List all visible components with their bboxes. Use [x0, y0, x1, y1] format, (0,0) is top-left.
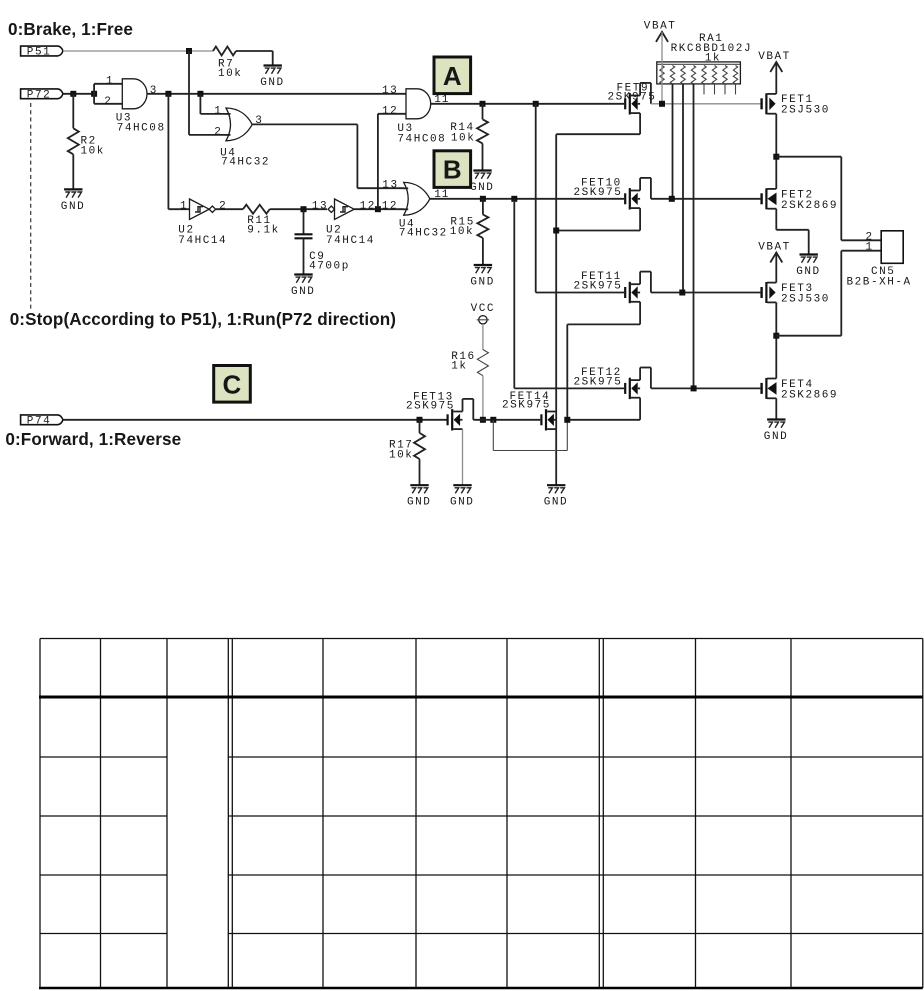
svg-text:13: 13 [382, 180, 398, 192]
svg-text:10k: 10k [450, 226, 474, 238]
node R14 junction [480, 101, 486, 107]
svg-text:2SJ530: 2SJ530 [781, 104, 830, 116]
svg-text:10k: 10k [218, 68, 242, 80]
wire R11 to inv2 [301, 208, 328, 210]
table grid [40, 639, 923, 989]
wire FET12 drain row [651, 387, 761, 389]
node RA1 pin1 node [659, 101, 665, 107]
wire CN5 pin2 net [776, 157, 881, 241]
wire FET2 source to GND [776, 209, 808, 255]
resistor R2 [68, 94, 105, 190]
svg-text:13: 13 [382, 85, 398, 97]
wire FET9 source path [556, 113, 640, 485]
wire P51 net [63, 50, 213, 52]
svg-text:13: 13 [312, 201, 328, 213]
wire FET10 drain row [651, 198, 761, 200]
node RA1 pin4 node [691, 385, 697, 391]
connector tag P74 [21, 415, 63, 428]
node C9 junction [301, 206, 307, 212]
wire gate-drain loop [493, 420, 567, 451]
svg-text:B: B [443, 155, 462, 185]
svg-text:1: 1 [214, 105, 222, 117]
wire net A to FET11 gate [536, 104, 624, 293]
svg-text:10k: 10k [81, 146, 105, 158]
svg-text:P72: P72 [27, 89, 51, 101]
resistor R14 [450, 104, 488, 171]
svg-text:P74: P74 [27, 415, 51, 427]
svg-text:GND: GND [61, 201, 85, 213]
svg-text:2SK975: 2SK975 [574, 281, 623, 293]
node R2 junction [70, 91, 76, 97]
svg-text:2SK2869: 2SK2869 [781, 390, 838, 402]
svg-text:1: 1 [106, 75, 114, 87]
label box C [214, 366, 251, 403]
svg-text:2SK975: 2SK975 [406, 401, 455, 413]
power VBAT FET3 [758, 241, 791, 262]
AND gate U3b 74HC08 [382, 85, 450, 145]
svg-text:VBAT: VBAT [644, 21, 677, 33]
connector tag P72 [21, 89, 63, 102]
wire FET13 source [462, 429, 464, 485]
power VBAT RA1 [644, 21, 677, 42]
svg-text:GND: GND [764, 431, 788, 443]
wire P72 net [63, 93, 94, 95]
wire FET9 drain row [651, 103, 761, 105]
wire P74 net [63, 419, 447, 421]
wire U3a output net [147, 93, 406, 95]
svg-text:1k: 1k [705, 53, 721, 65]
svg-text:2: 2 [219, 201, 227, 213]
svg-text:9.1k: 9.1k [247, 224, 280, 236]
svg-text:GND: GND [470, 277, 494, 289]
wire net B row [430, 198, 624, 200]
wire RA1 pin4 [693, 84, 695, 389]
label box B [434, 151, 471, 188]
capacitor C9 [295, 209, 350, 274]
wire FET4 source to GND [775, 398, 777, 419]
node R15 junction [480, 196, 486, 202]
ground GND R17 [407, 485, 431, 509]
wire to inverter U2a [168, 94, 189, 209]
wire VBAT to RA1 pin1 [661, 32, 663, 104]
svg-text:74HC32: 74HC32 [221, 156, 270, 168]
wire net A row [431, 103, 624, 105]
wire FET1-FET2 rail [775, 114, 777, 189]
wire FET3-FET4 rail [775, 302, 777, 378]
node RA1 pin3 node [679, 290, 685, 296]
wire R7 to GND [236, 51, 273, 66]
node motor node 2 [773, 154, 779, 160]
svg-text:2SK2869: 2SK2869 [781, 200, 838, 212]
wire VBAT to FET3 [775, 253, 777, 283]
wire to U3b pin12 [378, 114, 406, 209]
svg-text:2: 2 [214, 127, 222, 139]
svg-text:1: 1 [866, 242, 874, 254]
transistor FET10 2SK975 [574, 177, 651, 209]
svg-text:12: 12 [382, 105, 398, 117]
node P51 junction [186, 48, 192, 54]
ground GND C9 [291, 275, 315, 299]
svg-text:VBAT: VBAT [758, 241, 791, 253]
svg-text:GND: GND [260, 77, 284, 89]
dashed note leader [30, 103, 32, 310]
svg-text:2SJ530: 2SJ530 [781, 294, 830, 306]
resistor R17 [389, 420, 425, 485]
wire FET10 source path [556, 208, 640, 230]
svg-text:GND: GND [796, 266, 820, 278]
wire inv2 output [354, 208, 404, 210]
OR gate U4b 74HC32 [360, 180, 450, 240]
transistor FET1 2SJ530 [760, 93, 830, 116]
node source rail junction [553, 228, 559, 234]
transistor FET11 2SK975 [574, 271, 651, 303]
node FET12 gate junction [511, 196, 517, 202]
svg-text:4700p: 4700p [309, 260, 350, 272]
svg-text:0:Forward, 1:Reverse: 0:Forward, 1:Reverse [5, 430, 181, 449]
ground GND R2 [61, 189, 85, 213]
svg-text:0:Brake, 1:Free: 0:Brake, 1:Free [8, 20, 133, 39]
node RA1 pin2 node [669, 196, 675, 202]
node U3a input junction [91, 91, 97, 97]
power VCC [471, 303, 495, 324]
inverter U2a 74HC14 [178, 199, 227, 247]
svg-text:GND: GND [544, 497, 568, 509]
ground GND FET4 [764, 420, 788, 444]
svg-text:1k: 1k [451, 361, 467, 373]
wire RA1 pin3 [682, 84, 684, 293]
node R16 junction [480, 417, 486, 423]
svg-text:74HC08: 74HC08 [397, 133, 446, 145]
transistor FET13 2SK975 [406, 392, 473, 431]
svg-text:VBAT: VBAT [758, 51, 791, 63]
node motor node 1 [773, 333, 779, 339]
transistor FET4 2SK2869 [760, 378, 838, 402]
transistor FET9 2SK975 [608, 82, 657, 114]
svg-text:P51: P51 [27, 47, 51, 59]
connector tag P51 [21, 46, 63, 59]
wire FET11 drain row [651, 292, 761, 294]
svg-text:GND: GND [291, 286, 315, 298]
label box A [434, 57, 471, 94]
power VBAT FET1 [758, 51, 791, 72]
svg-text:2: 2 [104, 96, 112, 108]
svg-text:0:Stop(According to P51), 1:Ru: 0:Stop(According to P51), 1:Run(P72 dire… [10, 310, 396, 329]
node inv feed junction [165, 91, 171, 97]
svg-text:A: A [443, 61, 462, 91]
connector CN5 B2B-XH-A [847, 231, 912, 289]
node loop junction [490, 417, 496, 423]
node U4a pin1 junction [197, 91, 203, 97]
AND gate U3a 74HC08 [104, 75, 165, 134]
transistor FET14 2SK975 [502, 391, 556, 430]
svg-text:GND: GND [450, 497, 474, 509]
ground GND R7 [260, 66, 284, 90]
svg-text:74HC14: 74HC14 [178, 235, 227, 247]
svg-text:12: 12 [360, 200, 376, 212]
wire U3a input bracket [94, 84, 122, 104]
ground GND FET14 [544, 485, 568, 509]
wire FET11 source path [567, 302, 640, 420]
svg-text:GND: GND [407, 497, 431, 509]
svg-text:74HC08: 74HC08 [117, 123, 166, 135]
resistor R7 [213, 47, 242, 81]
svg-text:2SK975: 2SK975 [574, 187, 623, 199]
svg-text:2SK975: 2SK975 [574, 376, 623, 388]
node R17 junction [417, 417, 423, 423]
wire FET13 drain row [473, 419, 540, 421]
transistor FET12 2SK975 [574, 367, 651, 399]
wire RA1 pin2 [672, 84, 674, 199]
wire P51 to U4 pin2 [189, 51, 226, 135]
transistor FET3 2SJ530 [760, 282, 830, 306]
wire RA1 unused pins [704, 84, 736, 95]
wire FET12 source path [567, 398, 640, 420]
svg-text:B2B-XH-A: B2B-XH-A [847, 277, 912, 289]
note 0:Forward [5, 430, 181, 449]
svg-text:2SK975: 2SK975 [608, 92, 657, 104]
transistor FET2 2SK2869 [760, 188, 838, 212]
ground GND FET2 [796, 255, 820, 279]
svg-text:2SK975: 2SK975 [502, 399, 551, 411]
svg-text:3: 3 [150, 85, 158, 97]
svg-text:74HC14: 74HC14 [326, 235, 375, 247]
svg-text:C: C [223, 369, 242, 399]
svg-text:1: 1 [180, 201, 188, 213]
node U3b pin12 junction [375, 206, 381, 212]
ground GND R15 [470, 265, 494, 289]
note 0:Stop [10, 310, 396, 329]
ground GND FET13 [450, 485, 474, 509]
svg-text:VCC: VCC [471, 303, 495, 315]
heading note 0:Brake [8, 20, 133, 39]
svg-text:74HC32: 74HC32 [399, 228, 448, 240]
resistor R16 [451, 324, 488, 420]
OR gate U4a 74HC32 [214, 105, 270, 168]
wire to U4a pin1 [200, 94, 226, 114]
wire VBAT to FET1 [775, 62, 777, 94]
resistor R11 [216, 205, 301, 237]
resistor R15 [450, 199, 489, 265]
inverter U2b 74HC14 [312, 199, 375, 247]
svg-text:10k: 10k [389, 450, 413, 462]
svg-text:GND: GND [470, 182, 494, 194]
wire CN5 pin1 net [776, 251, 881, 336]
node FET11 gate junction [533, 101, 539, 107]
node FET14 drain node [564, 417, 570, 423]
svg-text:12: 12 [382, 200, 398, 212]
svg-text:10k: 10k [451, 132, 475, 144]
wire net B to FET12 gate [514, 199, 624, 389]
resistor array RA1 RKC8BD102J [657, 33, 752, 84]
ground GND R14 [470, 171, 494, 195]
wire U4a output to U4b pin13 [252, 124, 404, 188]
